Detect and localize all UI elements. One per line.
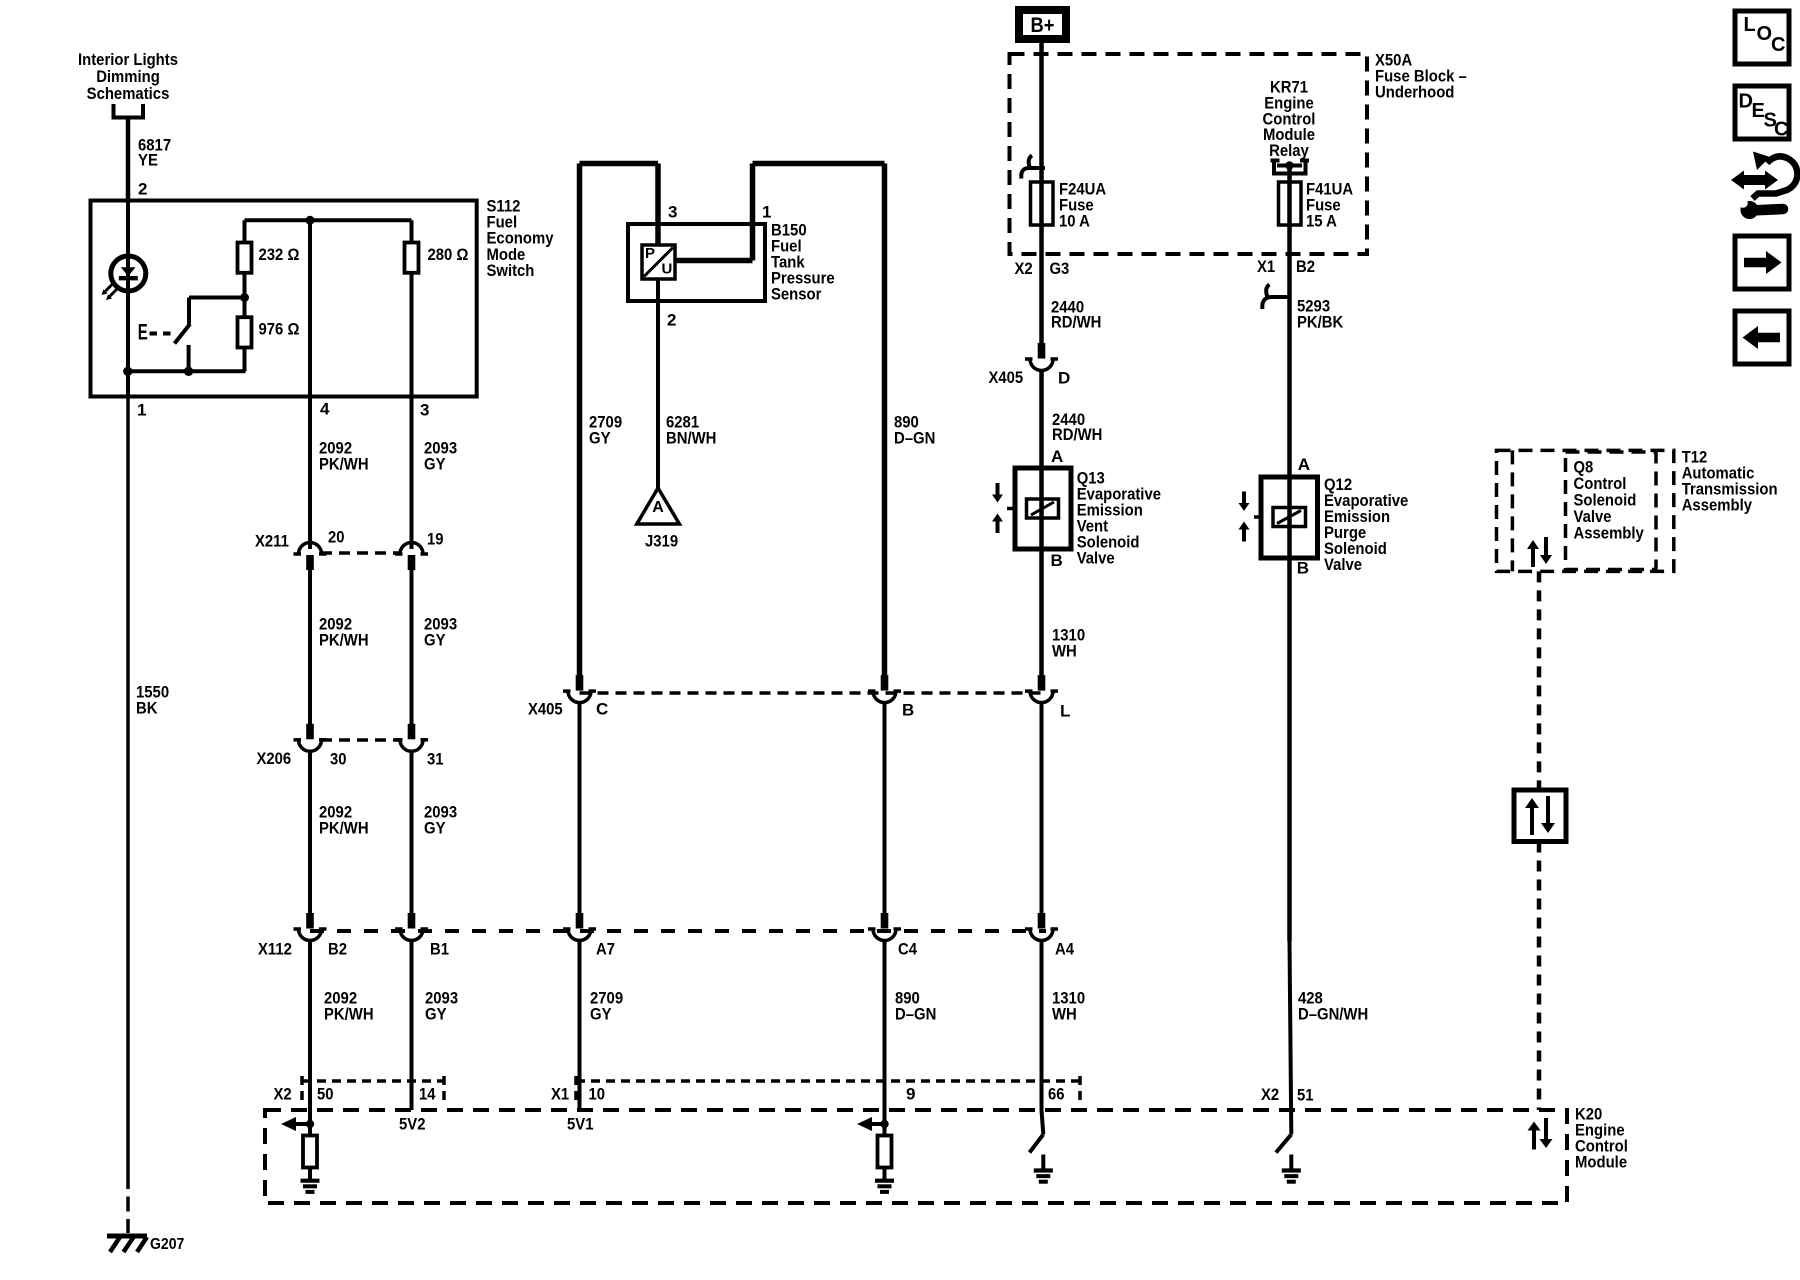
svg-text:BN/WH: BN/WH — [666, 429, 716, 448]
svg-text:G207: G207 — [150, 1236, 184, 1253]
svg-text:X112: X112 — [258, 940, 292, 959]
svg-text:GY: GY — [424, 819, 446, 838]
svg-text:L: L — [1744, 14, 1756, 36]
svg-text:30: 30 — [330, 750, 347, 769]
svg-text:A4: A4 — [1055, 940, 1074, 959]
svg-text:G3: G3 — [1050, 259, 1070, 278]
svg-text:Sensor: Sensor — [771, 285, 822, 304]
svg-text:X211: X211 — [255, 532, 289, 551]
svg-text:WH: WH — [1052, 642, 1077, 661]
svg-text:10 A: 10 A — [1059, 212, 1090, 231]
svg-text:X1: X1 — [551, 1085, 569, 1104]
svg-text:B: B — [902, 701, 914, 720]
svg-text:X2: X2 — [1015, 259, 1033, 278]
svg-text:RD/WH: RD/WH — [1052, 425, 1102, 444]
svg-text:976 Ω: 976 Ω — [259, 320, 300, 339]
svg-text:J319: J319 — [645, 532, 678, 551]
svg-text:A: A — [1298, 455, 1310, 474]
svg-text:10: 10 — [589, 1085, 606, 1104]
svg-text:C4: C4 — [898, 940, 917, 959]
svg-text:RD/WH: RD/WH — [1051, 313, 1101, 332]
svg-text:A: A — [1051, 447, 1063, 466]
svg-text:9: 9 — [906, 1085, 915, 1104]
svg-text:3: 3 — [668, 203, 677, 222]
svg-text:Valve: Valve — [1077, 548, 1115, 567]
svg-text:31: 31 — [427, 750, 444, 769]
svg-text:Schematics: Schematics — [87, 84, 170, 103]
svg-text:Assembly: Assembly — [1574, 523, 1645, 542]
svg-text:B+: B+ — [1031, 14, 1055, 37]
svg-text:D: D — [1058, 369, 1070, 388]
svg-text:D–GN: D–GN — [894, 429, 935, 448]
svg-text:C: C — [596, 700, 608, 719]
svg-text:YE: YE — [138, 151, 158, 170]
svg-text:B2: B2 — [1296, 257, 1315, 276]
svg-text:51: 51 — [1297, 1086, 1314, 1105]
svg-text:280 Ω: 280 Ω — [428, 245, 469, 264]
svg-text:B2: B2 — [328, 940, 347, 959]
svg-text:A: A — [652, 499, 664, 516]
svg-text:C: C — [1771, 34, 1785, 56]
svg-text:Switch: Switch — [487, 261, 535, 280]
svg-text:PK/WH: PK/WH — [319, 455, 369, 474]
svg-text:U: U — [662, 260, 673, 277]
svg-text:C: C — [1774, 119, 1788, 141]
svg-text:15 A: 15 A — [1306, 212, 1337, 231]
svg-text:WH: WH — [1052, 1005, 1077, 1024]
svg-text:BK: BK — [136, 699, 158, 718]
svg-text:GY: GY — [425, 1005, 447, 1024]
svg-text:232 Ω: 232 Ω — [259, 245, 300, 264]
svg-text:X405: X405 — [989, 368, 1024, 387]
svg-text:B: B — [1297, 558, 1309, 577]
svg-text:1: 1 — [762, 203, 771, 222]
svg-text:GY: GY — [589, 429, 611, 448]
svg-text:PK/WH: PK/WH — [319, 819, 369, 838]
svg-text:14: 14 — [419, 1085, 436, 1104]
svg-text:19: 19 — [427, 530, 444, 549]
svg-text:GY: GY — [424, 631, 446, 650]
svg-text:X1: X1 — [1257, 257, 1275, 276]
svg-text:X2: X2 — [1261, 1085, 1279, 1104]
svg-text:GY: GY — [590, 1005, 612, 1024]
svg-text:Assembly: Assembly — [1682, 496, 1753, 515]
svg-text:PK/WH: PK/WH — [319, 631, 369, 650]
svg-text:Underhood: Underhood — [1375, 83, 1454, 102]
svg-text:Relay: Relay — [1269, 141, 1309, 160]
svg-text:O: O — [1757, 23, 1773, 45]
svg-text:B1: B1 — [430, 940, 449, 959]
svg-text:4: 4 — [320, 400, 330, 419]
svg-text:X405: X405 — [528, 700, 563, 719]
svg-text:3: 3 — [420, 401, 429, 420]
svg-text:66: 66 — [1048, 1085, 1065, 1104]
svg-text:PK/BK: PK/BK — [1297, 313, 1344, 332]
svg-text:E: E — [138, 320, 148, 345]
svg-text:GY: GY — [424, 455, 446, 474]
svg-text:20: 20 — [328, 528, 345, 547]
svg-text:1: 1 — [137, 401, 146, 420]
svg-text:D–GN: D–GN — [895, 1005, 936, 1024]
svg-text:PK/WH: PK/WH — [324, 1005, 374, 1024]
svg-text:X2: X2 — [274, 1085, 292, 1104]
svg-text:D–GN/WH: D–GN/WH — [1298, 1005, 1368, 1024]
svg-text:A7: A7 — [596, 940, 615, 959]
svg-text:P: P — [645, 245, 655, 262]
svg-text:5V2: 5V2 — [399, 1115, 426, 1134]
svg-text:Module: Module — [1575, 1153, 1627, 1172]
svg-text:2: 2 — [667, 311, 676, 330]
svg-text:Valve: Valve — [1324, 555, 1362, 574]
svg-text:50: 50 — [317, 1085, 334, 1104]
svg-text:B: B — [1051, 551, 1063, 570]
svg-text:5V1: 5V1 — [567, 1115, 594, 1134]
svg-text:X206: X206 — [257, 749, 292, 768]
svg-text:L: L — [1060, 702, 1070, 721]
svg-text:2: 2 — [138, 180, 147, 199]
